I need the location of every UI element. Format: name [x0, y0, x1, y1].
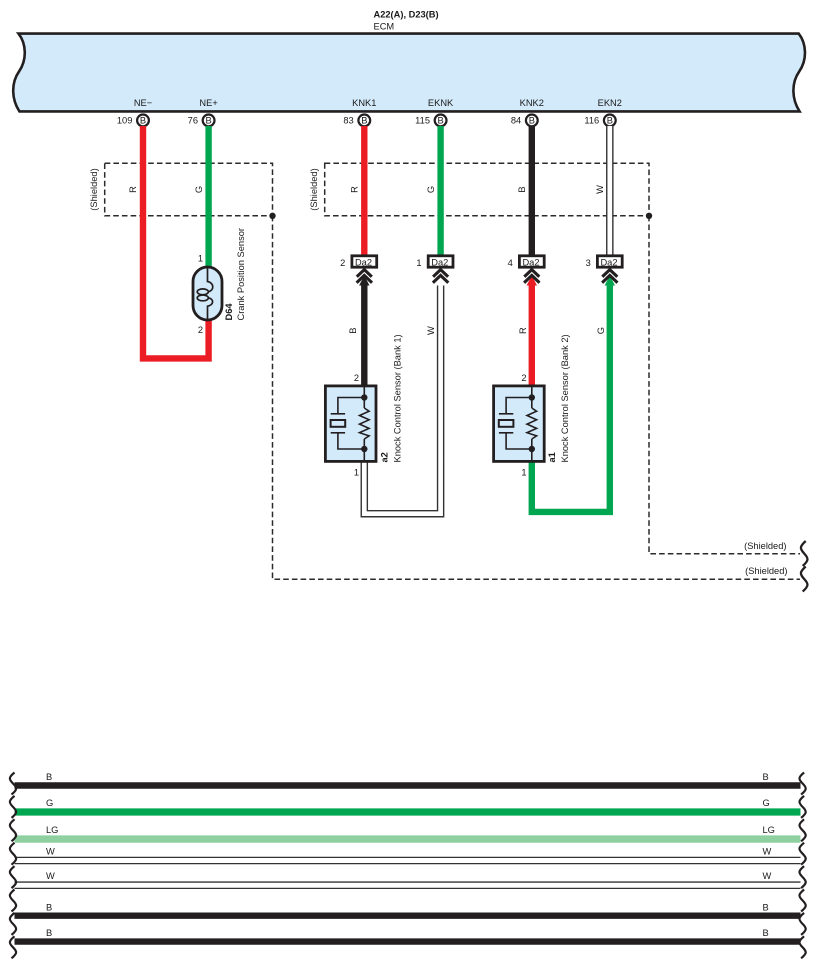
svg-text:(Shielded): (Shielded) — [89, 168, 99, 210]
svg-text:KNK2: KNK2 — [520, 98, 544, 108]
svg-text:LG: LG — [46, 825, 58, 835]
svg-text:NE+: NE+ — [199, 98, 217, 108]
svg-text:R: R — [128, 186, 138, 193]
svg-text:B: B — [763, 772, 769, 782]
svg-text:1: 1 — [354, 468, 359, 478]
svg-text:2: 2 — [354, 373, 359, 383]
svg-text:B: B — [607, 115, 613, 125]
svg-text:EKNK: EKNK — [428, 98, 454, 108]
svg-text:2: 2 — [198, 325, 203, 335]
svg-text:Da2: Da2 — [600, 257, 617, 267]
svg-text:B: B — [529, 115, 535, 125]
svg-text:2: 2 — [521, 373, 526, 383]
svg-text:D64: D64 — [224, 303, 234, 321]
svg-text:109: 109 — [117, 116, 133, 126]
svg-text:G: G — [46, 798, 53, 808]
svg-text:B: B — [437, 115, 443, 125]
svg-text:(Shielded): (Shielded) — [744, 541, 786, 551]
svg-text:Knock Control Sensor (Bank 1): Knock Control Sensor (Bank 1) — [393, 334, 403, 462]
svg-text:B: B — [46, 772, 52, 782]
svg-text:Knock Control Sensor (Bank 2): Knock Control Sensor (Bank 2) — [560, 334, 570, 462]
svg-text:76: 76 — [188, 116, 198, 126]
svg-text:1: 1 — [416, 258, 421, 268]
svg-text:84: 84 — [511, 116, 521, 126]
svg-text:Da2: Da2 — [522, 257, 539, 267]
svg-text:W: W — [46, 871, 55, 881]
svg-text:G: G — [596, 327, 606, 334]
svg-text:(Shielded): (Shielded) — [309, 168, 319, 210]
svg-text:G: G — [426, 186, 436, 193]
svg-text:LG: LG — [763, 825, 775, 835]
svg-text:KNK1: KNK1 — [352, 98, 376, 108]
svg-text:G: G — [763, 798, 770, 808]
svg-text:(Shielded): (Shielded) — [745, 566, 787, 576]
svg-text:B: B — [348, 327, 358, 333]
svg-text:1: 1 — [521, 468, 526, 478]
svg-text:B: B — [361, 115, 367, 125]
svg-text:a2: a2 — [380, 452, 390, 462]
svg-text:Crank Position Sensor: Crank Position Sensor — [236, 228, 246, 321]
svg-text:115: 115 — [415, 116, 430, 126]
svg-text:B: B — [205, 115, 211, 125]
svg-text:B: B — [763, 928, 769, 938]
svg-text:G: G — [194, 186, 204, 193]
svg-text:Da2: Da2 — [431, 257, 448, 267]
svg-text:a1: a1 — [547, 452, 557, 462]
svg-text:W: W — [426, 326, 436, 335]
svg-text:NE−: NE− — [134, 98, 152, 108]
svg-text:B: B — [517, 186, 527, 192]
svg-text:W: W — [595, 185, 605, 194]
svg-text:EKN2: EKN2 — [598, 98, 622, 108]
svg-text:A22(A), D23(B): A22(A), D23(B) — [374, 10, 439, 20]
svg-text:3: 3 — [586, 258, 591, 268]
svg-text:83: 83 — [343, 116, 353, 126]
svg-text:ECM: ECM — [374, 22, 395, 32]
svg-text:116: 116 — [584, 116, 599, 126]
svg-text:B: B — [140, 115, 146, 125]
svg-text:Da2: Da2 — [355, 257, 372, 267]
svg-text:B: B — [46, 928, 52, 938]
svg-text:B: B — [46, 902, 52, 912]
svg-text:4: 4 — [508, 258, 513, 268]
svg-text:R: R — [350, 186, 360, 193]
svg-text:1: 1 — [198, 253, 203, 263]
svg-text:W: W — [46, 847, 55, 857]
svg-text:W: W — [763, 847, 772, 857]
svg-text:W: W — [763, 871, 772, 881]
svg-text:R: R — [518, 327, 528, 334]
svg-text:B: B — [763, 902, 769, 912]
svg-text:2: 2 — [340, 258, 345, 268]
